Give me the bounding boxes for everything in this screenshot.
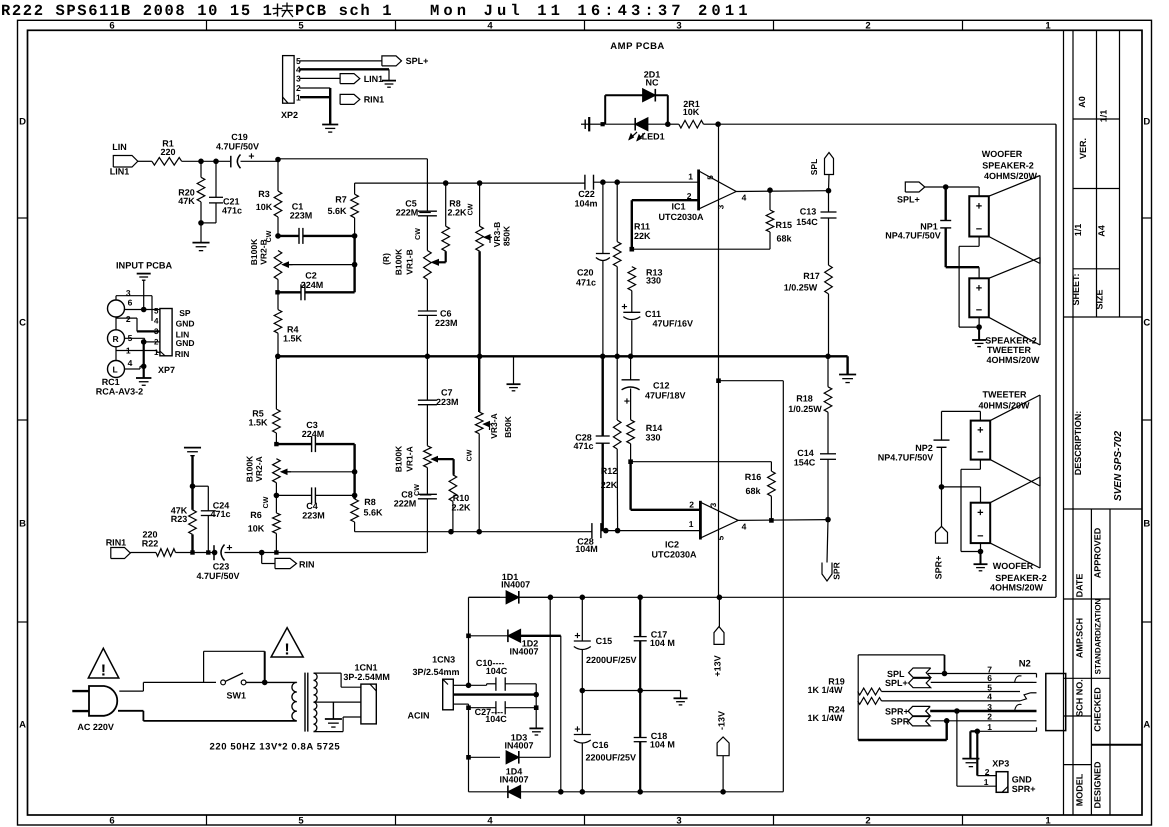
svg-text:C19: C19 <box>231 132 248 142</box>
wire LED branch <box>590 123 605 125</box>
svg-text:5.6K: 5.6K <box>363 508 383 518</box>
svg-text:SPR+: SPR+ <box>885 707 909 717</box>
svg-text:+: + <box>977 425 983 437</box>
svg-text:6: 6 <box>128 298 133 308</box>
wire N2 row6 <box>931 681 1033 683</box>
wire rca ground stem <box>143 342 145 378</box>
svg-text:1: 1 <box>987 722 992 732</box>
svg-text:1: 1 <box>984 777 989 787</box>
svg-text:C15: C15 <box>596 636 613 646</box>
svg-text:3: 3 <box>154 327 159 336</box>
flag LIN1 input <box>113 156 138 168</box>
wire ACIN pin3 <box>453 703 468 705</box>
wire rca R to xp7 <box>125 337 145 339</box>
svg-text:N2: N2 <box>1019 659 1031 670</box>
side ruler ticks <box>18 217 28 219</box>
svg-text:WOOFER: WOOFER <box>982 149 1023 159</box>
svg-text:PCB sch 1: PCB sch 1 <box>295 2 393 20</box>
svg-text:1K 1/4W: 1K 1/4W <box>807 713 843 723</box>
junction <box>975 729 981 735</box>
speaker NP1 woofer-2 +/- cell <box>969 196 989 236</box>
svg-text:SPL+: SPL+ <box>406 56 429 66</box>
AC plug <box>89 686 117 716</box>
wire ACIN pin2 <box>453 693 536 695</box>
svg-text:223M: 223M <box>290 211 313 221</box>
svg-text:1K 1/4W: 1K 1/4W <box>807 685 843 695</box>
svg-text:SVEN SPS-702: SVEN SPS-702 <box>1113 431 1124 501</box>
svg-text:22K: 22K <box>634 231 651 241</box>
wire R7 rail <box>355 182 585 184</box>
svg-text:LIN: LIN <box>112 142 127 152</box>
svg-text:5: 5 <box>706 175 715 180</box>
wire SPL+ to woofer <box>925 186 979 188</box>
wire ground rail <box>276 355 845 357</box>
junction <box>628 459 633 464</box>
svg-text:IN4007: IN4007 <box>504 741 533 751</box>
svg-text:5: 5 <box>717 535 726 540</box>
wire +13V top distribution <box>718 123 1056 125</box>
bottom ruler ticks <box>206 815 208 825</box>
wire secondary top <box>314 672 342 674</box>
svg-text:3P-2.54MM: 3P-2.54MM <box>343 672 390 682</box>
svg-text:+: + <box>621 301 627 313</box>
svg-text:A0: A0 <box>1077 96 1087 108</box>
switch link frame <box>203 651 205 682</box>
svg-text:VR3-B: VR3-B <box>492 222 502 248</box>
svg-text:Mon Jul 11 16:43:37 2011: Mon Jul 11 16:43:37 2011 <box>430 2 752 20</box>
svg-text:R17: R17 <box>803 271 820 281</box>
junction rail dots <box>600 354 606 360</box>
wire NP2 top <box>942 410 981 412</box>
svg-text:1: 1 <box>1045 815 1051 826</box>
svg-text:NP4.7UF/50V: NP4.7UF/50V <box>885 230 941 240</box>
junction <box>352 493 358 499</box>
svg-text:R7: R7 <box>335 195 347 205</box>
junction <box>141 364 147 370</box>
wire rca tab3 <box>115 296 117 300</box>
svg-text:AMP PCBA: AMP PCBA <box>610 41 665 52</box>
speaker NP2 tweeter +/- cell <box>971 421 991 460</box>
svg-text:C2: C2 <box>305 271 317 281</box>
ground AC filter <box>535 695 537 728</box>
svg-text:UTC2030A: UTC2030A <box>651 550 697 560</box>
speaker NP2 tweeter horn <box>990 395 1040 421</box>
svg-text:+: + <box>624 396 630 408</box>
svg-text:INPUT PCBA: INPUT PCBA <box>116 261 173 271</box>
ground stub mid rail <box>513 356 515 384</box>
wire N2 row3 <box>930 710 1036 712</box>
svg-text:C: C <box>19 318 26 329</box>
svg-text:B100K: B100K <box>394 248 404 275</box>
junction <box>141 307 147 313</box>
svg-text:IC2: IC2 <box>665 540 679 550</box>
svg-text:DESIGNED: DESIGNED <box>1093 761 1103 809</box>
flag SPL+ <box>382 56 402 66</box>
svg-text:D: D <box>19 117 26 128</box>
junction <box>630 247 635 252</box>
title block grid <box>1063 30 1065 815</box>
connector N2 body <box>1046 674 1066 731</box>
wire -13V bottom rail <box>561 791 784 793</box>
svg-text:330: 330 <box>645 433 660 443</box>
wiper wire VR1-B <box>445 251 447 262</box>
svg-text:R22: R22 <box>142 538 159 548</box>
junction <box>141 339 147 345</box>
junction <box>548 595 554 601</box>
svg-text:3: 3 <box>676 815 681 826</box>
junction C22 out <box>600 179 606 185</box>
svg-text:B100K: B100K <box>249 238 259 265</box>
svg-text:DESCRIPTION:: DESCRIPTION: <box>1073 411 1083 476</box>
junction <box>533 692 539 698</box>
svg-text:RIN: RIN <box>299 560 315 570</box>
wire tweeter minus <box>978 317 980 327</box>
ground 0V <box>680 691 682 699</box>
svg-text:4: 4 <box>742 193 747 203</box>
svg-text:−: − <box>976 305 982 317</box>
svg-text:SCH NO.: SCH NO. <box>1075 679 1085 717</box>
junction <box>477 180 483 186</box>
svg-text:UTC2030A: UTC2030A <box>658 212 704 222</box>
squiggle row4 <box>1020 693 1031 701</box>
junction <box>825 517 831 523</box>
svg-text:ACIN: ACIN <box>408 711 430 721</box>
svg-text:4OHMS/20W: 4OHMS/20W <box>986 355 1040 365</box>
svg-text:C: C <box>1143 318 1150 329</box>
svg-text:R8: R8 <box>364 497 376 507</box>
svg-text:XP2: XP2 <box>281 110 298 120</box>
svg-text:4: 4 <box>987 692 992 702</box>
flag RIN1 at XP2 <box>340 94 360 104</box>
svg-text:SP: SP <box>179 308 191 318</box>
svg-text:R18: R18 <box>796 394 813 404</box>
svg-text:-13V: -13V <box>717 711 727 730</box>
connector XP2 <box>283 56 295 104</box>
junction dots R20/C21 <box>198 159 204 165</box>
svg-text:C23: C23 <box>213 562 230 572</box>
svg-text:A4: A4 <box>1097 225 1107 237</box>
svg-text:GND: GND <box>176 319 195 329</box>
svg-text:B100K: B100K <box>245 455 255 482</box>
svg-text:5: 5 <box>154 306 159 315</box>
ground input pcba bottom <box>136 377 151 379</box>
svg-text:SPEAKER-2: SPEAKER-2 <box>985 336 1037 346</box>
junction 2R1 output <box>715 121 721 127</box>
speaker tweeter-2 +/- cell <box>969 278 989 317</box>
svg-text:2: 2 <box>985 767 990 777</box>
speaker woofer-2 horn <box>989 176 1040 197</box>
svg-text:2.2K: 2.2K <box>447 207 467 217</box>
svg-text:10K: 10K <box>248 524 265 534</box>
svg-text:C16: C16 <box>592 740 609 750</box>
ground center tap <box>332 702 334 718</box>
svg-text:−: − <box>976 224 982 236</box>
svg-text:2: 2 <box>126 314 131 324</box>
svg-text:IN4007: IN4007 <box>509 647 538 657</box>
junction <box>944 718 950 724</box>
svg-text:1/1: 1/1 <box>1099 110 1109 123</box>
junction <box>448 529 454 535</box>
svg-text:SPR+: SPR+ <box>1012 784 1036 794</box>
svg-text:C22: C22 <box>578 189 595 199</box>
svg-text:IN4007: IN4007 <box>499 775 528 785</box>
svg-text:47UF/16V: 47UF/16V <box>653 319 694 329</box>
svg-text:VR3-A: VR3-A <box>489 413 499 439</box>
svg-text:RCA-AV3-2: RCA-AV3-2 <box>96 387 143 397</box>
ground speakers 2 <box>980 552 982 564</box>
svg-text:XP3: XP3 <box>992 759 1009 769</box>
title CJK glyph <box>277 4 279 17</box>
junction <box>190 483 196 489</box>
svg-text:4OHMS/20W: 4OHMS/20W <box>990 583 1044 593</box>
svg-text:R222 SPS611B 2008 10 15 1: R222 SPS611B 2008 10 15 1 <box>1 2 274 20</box>
transformer core <box>304 673 306 732</box>
svg-text:+: + <box>574 724 580 736</box>
wire ACIN pin1 <box>453 684 468 686</box>
svg-text:223M: 223M <box>435 318 458 328</box>
svg-text:GND: GND <box>176 338 195 348</box>
flag RIN <box>275 558 297 568</box>
junction <box>769 518 774 523</box>
svg-text:R11: R11 <box>634 222 650 232</box>
svg-text:40HMS/20W: 40HMS/20W <box>978 401 1030 411</box>
svg-text:2: 2 <box>865 21 870 32</box>
wire IC supply jog <box>716 378 721 383</box>
wire rca pin5 <box>125 309 160 311</box>
svg-text:SPEAKER-2: SPEAKER-2 <box>982 160 1034 170</box>
svg-text:2: 2 <box>689 500 694 510</box>
svg-text:R6: R6 <box>250 510 262 520</box>
svg-text:2200UF/25V: 2200UF/25V <box>586 753 637 763</box>
svg-text:6: 6 <box>109 815 114 826</box>
svg-text:STANDARDIZATION: STANDARDIZATION <box>1094 598 1103 674</box>
junction C19 out <box>275 157 281 163</box>
ground XP3 <box>962 758 979 760</box>
svg-text:223M: 223M <box>302 511 325 521</box>
junction <box>443 180 449 186</box>
speaker NP2 woofer horn <box>990 477 1040 503</box>
svg-text:B: B <box>19 519 26 530</box>
svg-text:2200UF/25V: 2200UF/25V <box>586 655 637 665</box>
svg-text:CW: CW <box>263 496 270 508</box>
svg-text:AMP.SCH: AMP.SCH <box>1075 618 1085 658</box>
wire N2 row7 <box>928 673 1037 675</box>
svg-text:6: 6 <box>109 21 114 32</box>
wire RIN net <box>262 552 277 554</box>
svg-text:2.2K: 2.2K <box>451 503 471 513</box>
svg-text:APPROVED: APPROVED <box>1093 527 1103 578</box>
ground speakers 1 <box>978 327 980 340</box>
wire -V vertical <box>560 636 562 792</box>
svg-text:C13: C13 <box>800 207 817 217</box>
svg-text:DATE: DATE <box>1075 574 1085 598</box>
svg-text:!: ! <box>101 663 106 680</box>
junction <box>466 683 472 689</box>
svg-text:CW: CW <box>415 228 422 240</box>
svg-text:2: 2 <box>865 815 870 826</box>
svg-text:4: 4 <box>487 21 493 32</box>
svg-text:R14: R14 <box>646 423 663 433</box>
svg-text:104 M: 104 M <box>650 638 675 648</box>
wire secondary bottom <box>314 731 344 733</box>
svg-text:1: 1 <box>689 519 694 529</box>
wire XP2 pin1 <box>300 96 330 98</box>
junction <box>826 188 832 194</box>
svg-text:2: 2 <box>154 338 159 347</box>
junction <box>262 680 268 686</box>
svg-text:1: 1 <box>154 348 159 357</box>
wire rca tab1 <box>116 350 157 352</box>
connector RC1 RCA circles <box>108 300 125 317</box>
svg-text:154C: 154C <box>794 458 816 468</box>
svg-text:CW: CW <box>467 449 474 461</box>
ground at XP2 pin4 <box>382 80 396 82</box>
wire IC1 pin2 <box>632 199 699 201</box>
svg-text:471c: 471c <box>576 278 596 288</box>
hook row3 <box>1015 704 1022 711</box>
wire IC supply vertical <box>718 124 720 597</box>
svg-text:TWEETER: TWEETER <box>983 390 1027 400</box>
wire VR2B to R4 <box>277 280 279 310</box>
svg-text:−: − <box>977 531 983 543</box>
svg-text:4: 4 <box>154 317 159 326</box>
junction <box>558 789 564 795</box>
junction <box>942 671 948 677</box>
junction <box>767 187 773 193</box>
ground at XP2 pin2 <box>322 124 338 126</box>
svg-text:LIN1: LIN1 <box>110 167 130 177</box>
junction <box>198 220 204 226</box>
wire switch to transformer <box>246 681 297 683</box>
wire XP2 pin5 to SPL+ <box>300 60 382 62</box>
node stub left of LED <box>581 123 590 125</box>
svg-text:VR2-A: VR2-A <box>254 456 264 482</box>
wire NP2 to woofer <box>942 486 981 488</box>
svg-text:104C: 104C <box>485 714 507 724</box>
svg-text:68k: 68k <box>777 234 793 244</box>
svg-text:104C: 104C <box>486 666 508 676</box>
junction <box>274 550 278 554</box>
wire rca L to xp7 <box>125 368 141 370</box>
svg-text:4: 4 <box>487 815 493 826</box>
junction <box>352 233 358 239</box>
junction <box>580 595 586 601</box>
svg-text:220 50HZ 13V*2 0.8A 5725: 220 50HZ 13V*2 0.8A 5725 <box>210 742 341 753</box>
wire N2 row2 <box>930 720 1036 722</box>
svg-text:IN4007: IN4007 <box>501 580 530 590</box>
svg-text:L: L <box>113 365 118 375</box>
svg-text:SPL: SPL <box>809 159 819 176</box>
svg-text:C12: C12 <box>653 381 670 391</box>
junction <box>534 705 539 710</box>
svg-text:1: 1 <box>1045 21 1051 32</box>
wire XP3 pin1 <box>956 711 958 786</box>
svg-text:SPL+: SPL+ <box>885 678 908 688</box>
svg-text:RIN: RIN <box>175 349 190 359</box>
wire N2 row1 <box>977 730 1036 732</box>
svg-text:10K: 10K <box>683 107 700 117</box>
svg-text:471c: 471c <box>222 206 242 216</box>
wire rca tab2 jog <box>116 317 137 319</box>
svg-text:VR1-B: VR1-B <box>405 249 415 275</box>
svg-text:NP2: NP2 <box>915 443 933 453</box>
svg-text:RIN1: RIN1 <box>106 538 127 548</box>
svg-text:LED1: LED1 <box>642 132 665 142</box>
svg-text:CHECKED: CHECKED <box>1093 687 1103 732</box>
svg-text:222M: 222M <box>394 499 417 509</box>
svg-text:IC1: IC1 <box>671 202 685 212</box>
svg-text:850K: 850K <box>502 225 512 246</box>
svg-text:1CN3: 1CN3 <box>432 655 455 665</box>
svg-text:5: 5 <box>298 21 304 32</box>
wire XP2 pin2 <box>300 87 330 89</box>
svg-text:+: + <box>976 201 982 213</box>
junction <box>954 708 960 714</box>
svg-text:SPR: SPR <box>832 562 842 579</box>
wire pin3 node vertical <box>468 708 470 792</box>
svg-text:10K: 10K <box>256 202 273 212</box>
svg-text:223M: 223M <box>436 397 459 407</box>
svg-text:4OHMS/20W: 4OHMS/20W <box>984 171 1038 181</box>
junction <box>939 484 945 490</box>
svg-text:R23: R23 <box>171 514 188 524</box>
junction <box>476 529 482 535</box>
speaker tweeter-2 horn <box>989 258 1040 279</box>
svg-text:+: + <box>976 283 982 295</box>
svg-text:1/1: 1/1 <box>1073 224 1083 237</box>
capacitor C21 471c <box>215 161 217 197</box>
svg-text:R12: R12 <box>601 466 618 476</box>
svg-text:4.7UF/50V: 4.7UF/50V <box>196 571 239 581</box>
svg-text:224M: 224M <box>302 429 325 439</box>
svg-text:C14: C14 <box>797 448 814 458</box>
svg-text:LIN1: LIN1 <box>364 74 384 84</box>
svg-text:RC1: RC1 <box>102 377 120 387</box>
svg-text:1/0.25W: 1/0.25W <box>784 283 818 293</box>
svg-text:RIN1: RIN1 <box>364 95 385 105</box>
svg-text:1CN1: 1CN1 <box>355 663 378 673</box>
wire 0V mid <box>582 690 680 692</box>
transformer secondary <box>314 673 318 680</box>
junction <box>212 550 218 556</box>
wire ch2 input node <box>451 531 479 533</box>
wire plug bottom to transformer <box>118 710 143 712</box>
svg-text:222M: 222M <box>396 207 419 217</box>
svg-text:+: + <box>574 630 580 642</box>
svg-text:SW1: SW1 <box>227 691 247 701</box>
junction <box>259 550 265 556</box>
wire woofer minus loop <box>978 237 980 247</box>
svg-text:220: 220 <box>160 147 175 157</box>
svg-text:3: 3 <box>709 502 718 507</box>
svg-text:+: + <box>977 507 983 519</box>
ground below R20 <box>200 223 202 242</box>
svg-text:R15: R15 <box>776 220 793 230</box>
wire XP3 pin2 ground <box>970 730 977 732</box>
wire IC1 feedback <box>632 248 770 250</box>
junction <box>603 528 609 534</box>
svg-text:SPR+: SPR+ <box>934 556 944 580</box>
hook row6 <box>1015 676 1022 683</box>
svg-text:104m: 104m <box>574 199 597 209</box>
LED LED1 <box>635 118 648 131</box>
svg-text:GND: GND <box>1012 775 1033 785</box>
wire secondary center tap <box>314 701 361 703</box>
svg-text:1.5K: 1.5K <box>283 334 303 344</box>
ground right end of rail <box>845 355 848 357</box>
svg-text:+13V: +13V <box>713 655 723 676</box>
svg-text:C11: C11 <box>645 309 661 319</box>
